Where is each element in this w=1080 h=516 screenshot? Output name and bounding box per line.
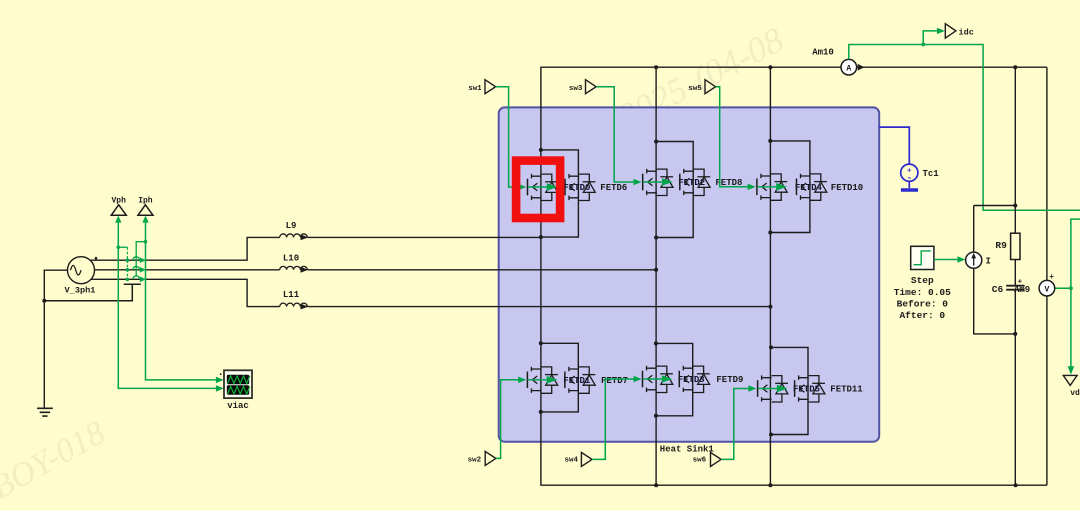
label idc <box>959 27 974 37</box>
label L10 <box>283 254 299 264</box>
current sensor arrows on phases <box>133 257 146 282</box>
arrow into idc <box>937 28 945 34</box>
wire device loop r1c2 <box>656 142 693 238</box>
flag idc (triangle) <box>945 24 956 38</box>
node vdc branch <box>1069 286 1073 290</box>
red highlight rectangle <box>516 161 560 218</box>
node bottom bus leg2 <box>654 483 658 487</box>
svg-text:Before: 0: Before: 0 <box>897 298 949 309</box>
svg-text:FETD11: FETD11 <box>830 385 863 395</box>
node loop bottom r2c3 <box>769 433 773 437</box>
wire sw5 gate feed <box>716 87 748 187</box>
node voltage tap phase C <box>126 278 130 282</box>
wire current sense taps <box>136 242 145 277</box>
label After: 0 <box>899 310 945 321</box>
transistor FETD6 (MOSFET with gate arrow) <box>528 174 558 201</box>
label FETD6 <box>600 183 627 193</box>
node loop bottom r1c3 <box>768 231 772 235</box>
flag sw2 (triangle) <box>485 451 496 465</box>
label Time: 0.05 <box>894 287 951 298</box>
node loop bottom r2c2 <box>654 414 658 418</box>
hidden label FETD2 of pair r1c2 <box>678 178 705 188</box>
label Heat Sink1 <box>660 445 715 455</box>
node current source to C6 branch top <box>1013 204 1017 208</box>
svg-text:Tc1: Tc1 <box>923 169 940 179</box>
svg-text:FETD4: FETD4 <box>795 183 823 193</box>
svg-text:Step: Step <box>911 275 934 286</box>
svg-text:idc: idc <box>959 27 974 37</box>
svg-text:Vph: Vph <box>111 196 126 205</box>
svg-text:viac: viac <box>227 401 249 411</box>
transistor FETD11 (MOSFET with gate arrow) <box>758 375 788 402</box>
wire V probe output <box>1055 287 1071 289</box>
capacitor C6 <box>1006 286 1024 290</box>
svg-text:Heat Sink1: Heat Sink1 <box>660 445 715 455</box>
node loop bottom r1c2 <box>654 236 658 240</box>
node idc branch <box>921 43 925 47</box>
source Tc1 <box>901 164 918 190</box>
arrow into vdc <box>1068 366 1075 374</box>
wire device loop r2c1 <box>541 343 579 412</box>
wire R9 to C6 <box>1014 260 1016 286</box>
node bottom bus leg3 <box>768 483 772 487</box>
node loop bottom r2c1 <box>539 410 543 414</box>
node loop top r2c3 <box>769 345 773 349</box>
diode device of pair r2c1 <box>565 367 595 394</box>
label FETD9 <box>716 375 743 385</box>
wire sw3 gate feed <box>596 87 634 182</box>
svg-text:Am10: Am10 <box>812 48 834 58</box>
transistor FETD8 (MOSFET with gate arrow) <box>643 169 673 196</box>
label viac <box>227 401 249 411</box>
probe Iph (triangle) <box>138 205 153 216</box>
svg-text:R9: R9 <box>995 240 1007 251</box>
wire Iph sense down to viac <box>146 221 216 380</box>
node loop top r1c1 <box>539 148 543 152</box>
label FETD7 <box>601 376 628 386</box>
flag vdc (triangle) <box>1063 375 1077 385</box>
hidden label FETD0 of pair r1c1 <box>563 183 590 193</box>
svg-text:sw3: sw3 <box>569 85 583 93</box>
label R9 <box>995 240 1007 251</box>
arrow sw1 gate feed <box>518 184 526 190</box>
svg-text:sw2: sw2 <box>468 456 482 464</box>
inductor L10 <box>280 266 309 272</box>
label L11 <box>283 290 300 300</box>
node top bus R9 branch <box>1013 65 1017 69</box>
hidden label FETD1 of pair r2c1 <box>563 376 591 386</box>
label sw5 <box>688 85 702 93</box>
arrow sw4 gate feed <box>634 376 642 382</box>
node loop top r1c3 <box>768 139 772 143</box>
transistor FETD7 (MOSFET with gate arrow) <box>527 367 557 394</box>
svg-text:A: A <box>846 64 851 73</box>
heat sink block Heat Sink1 (purple region) <box>499 107 880 441</box>
wire sw4 gate feed <box>592 379 635 459</box>
arrow sw5 gate feed <box>748 184 756 190</box>
label Am10 <box>812 48 834 58</box>
label Vph <box>111 196 126 205</box>
arrow into Vph <box>115 216 121 223</box>
label plus of C6 <box>1018 278 1023 286</box>
wire bottom DC bus <box>540 484 1047 486</box>
label L9 <box>286 221 297 231</box>
svg-text:V_3ph1: V_3ph1 <box>65 286 96 296</box>
svg-text:V: V <box>1044 286 1049 295</box>
wire top DC bus <box>540 66 1047 68</box>
label sw1 <box>468 85 482 93</box>
label FETD11 <box>830 385 863 395</box>
svg-text:L10: L10 <box>283 254 299 264</box>
probe Vph (triangle) <box>111 205 126 216</box>
node loop top r2c1 <box>539 341 543 345</box>
wire neutral bar of source <box>44 284 141 300</box>
node loop bottom r1c1 <box>539 235 543 239</box>
wire sw2 gate feed <box>496 380 519 459</box>
faint watermark top <box>611 20 790 137</box>
wire L11 to bridge leg 3 <box>307 306 770 308</box>
label FETD8 <box>715 178 742 188</box>
svg-text:FETD6: FETD6 <box>600 183 627 193</box>
wire Tc1 blue lead <box>879 127 909 164</box>
label Step <box>911 275 934 286</box>
label Iph <box>138 196 153 205</box>
wire V probe branch <box>1046 67 1048 485</box>
wire idc branch <box>923 31 937 45</box>
label C6 <box>992 284 1004 295</box>
svg-text:+: + <box>1049 273 1054 282</box>
wire phase B from source to L10 <box>91 269 280 271</box>
label V_3ph1 <box>65 286 96 296</box>
flag sw3 (triangle) <box>586 80 597 94</box>
diode device of pair r2c3 <box>795 375 825 402</box>
svg-text:sw1: sw1 <box>468 85 482 93</box>
label sw4 <box>565 456 579 464</box>
diode device of pair r1c3 <box>797 174 827 201</box>
arrow into Iph <box>142 216 148 223</box>
svg-text:sw6: sw6 <box>693 456 707 464</box>
svg-text:sw5: sw5 <box>688 85 702 93</box>
svg-text:FETD1: FETD1 <box>563 376 591 386</box>
wire source left lead down to ground <box>44 270 68 408</box>
transistor FETD9 (MOSFET with gate arrow) <box>643 366 673 393</box>
arrow sw6 gate feed <box>748 385 756 391</box>
transistor FETD10 (MOSFET with gate arrow) <box>757 174 787 201</box>
current source I <box>966 252 982 268</box>
node loop top r1c2 <box>654 140 658 144</box>
wire current source bottom <box>974 268 1016 334</box>
flag sw6 (triangle) <box>711 452 722 466</box>
wire current source top <box>974 206 1016 253</box>
hidden label FETD4 of pair r1c3 <box>795 183 823 193</box>
wire bridge leg 2 (column) <box>655 67 657 485</box>
svg-text:After: 0: After: 0 <box>899 310 945 321</box>
wire L9 to bridge leg 1 <box>307 236 541 238</box>
wire vdc signal net <box>1071 219 1080 366</box>
faint watermark bottom left <box>0 414 112 506</box>
node on Vph wire <box>117 245 121 249</box>
wire phase A from source to L9 <box>91 237 280 260</box>
svg-text:L9: L9 <box>286 221 297 231</box>
label sw3 <box>569 85 583 93</box>
label Tc1 <box>923 169 940 179</box>
flag sw1 (triangle) <box>485 80 496 94</box>
node voltage tap phase A <box>126 258 130 262</box>
svg-text:C6: C6 <box>992 284 1004 295</box>
node loop top r2c2 <box>654 341 658 345</box>
svg-text:FETD10: FETD10 <box>831 183 863 193</box>
diode device of pair r1c2 <box>680 169 710 196</box>
svg-text:sw4: sw4 <box>565 456 579 464</box>
label FETD10 <box>831 183 863 193</box>
node current source to C6 branch bottom <box>1013 332 1017 336</box>
wire device loop r1c1 <box>541 150 579 237</box>
wire bridge leg 3 (column) <box>769 67 771 485</box>
node top bus leg3 <box>768 65 772 69</box>
arrow sw3 gate feed <box>634 179 642 185</box>
wire Vph sense down to viac <box>118 221 216 388</box>
ammeter Am10 <box>841 59 857 75</box>
diode device of pair r1c1 <box>565 174 595 201</box>
node voltage tap phase B <box>126 268 130 272</box>
wire sw1 gate feed <box>496 87 519 187</box>
label sw2 <box>468 456 482 464</box>
white strip at bottom edge <box>0 511 1080 516</box>
wire L10 to bridge leg 2 <box>307 269 656 271</box>
svg-text:I: I <box>986 256 991 266</box>
node on Iph wire <box>144 240 148 244</box>
label vdc <box>1070 389 1080 398</box>
label plus of V probe <box>1049 273 1054 282</box>
arrow step to current source <box>958 256 966 262</box>
hidden label FETD5 of pair r2c3 <box>793 385 820 395</box>
wire phase C from source to L11 <box>91 279 280 306</box>
node top bus leg2 <box>654 65 658 69</box>
arrow into viac input 1 <box>216 377 224 383</box>
wire Am10 signal to idc and right <box>849 45 1080 211</box>
flag sw4 (triangle) <box>581 452 592 466</box>
scope viac <box>220 370 252 398</box>
wire sw6 gate feed <box>721 389 749 460</box>
node bottom bus R9 branch <box>1014 483 1018 487</box>
diode device of pair r2c2 <box>679 366 709 393</box>
flag sw5 (triangle) <box>705 80 716 94</box>
wire step to current source <box>934 259 958 261</box>
wire device loop r2c3 <box>771 347 808 434</box>
svg-text:FETD9: FETD9 <box>716 375 743 385</box>
wire C6 to bottom bus <box>1014 291 1016 486</box>
voltmeter V <box>1039 280 1055 296</box>
wire R9 branch upper <box>1014 67 1016 233</box>
hidden label FETD3 of pair r2c2 <box>678 375 705 385</box>
voltage source V_3ph1 <box>68 257 98 284</box>
svg-text:+: + <box>1018 278 1023 286</box>
label Before: 0 <box>897 298 949 309</box>
node junction on left wire <box>42 299 46 303</box>
step source block <box>911 246 934 269</box>
inductor L9 <box>280 234 309 240</box>
label Am9 (partly hidden) <box>1014 285 1030 295</box>
svg-text:vdc: vdc <box>1070 389 1080 398</box>
wire device loop r2c2 <box>656 343 693 415</box>
arrow into viac input 2 <box>216 385 224 391</box>
label sw6 <box>693 456 707 464</box>
wire voltage sense taps <box>118 247 127 279</box>
ground <box>37 408 53 416</box>
inductor L11 <box>280 303 309 309</box>
arrow sw2 gate feed <box>518 377 526 383</box>
node phase B to leg 2 <box>654 268 658 272</box>
svg-text:Time: 0.05: Time: 0.05 <box>894 287 951 298</box>
svg-text:Iph: Iph <box>138 196 153 205</box>
svg-text:L11: L11 <box>283 290 300 300</box>
node phase C to leg 3 <box>768 305 772 309</box>
resistor R9 <box>1011 233 1020 259</box>
wire device loop r1c3 <box>770 141 810 233</box>
wire bridge leg 1 (column) <box>540 67 542 485</box>
arrow after Am10 <box>858 64 865 71</box>
label I of current source <box>986 256 991 266</box>
